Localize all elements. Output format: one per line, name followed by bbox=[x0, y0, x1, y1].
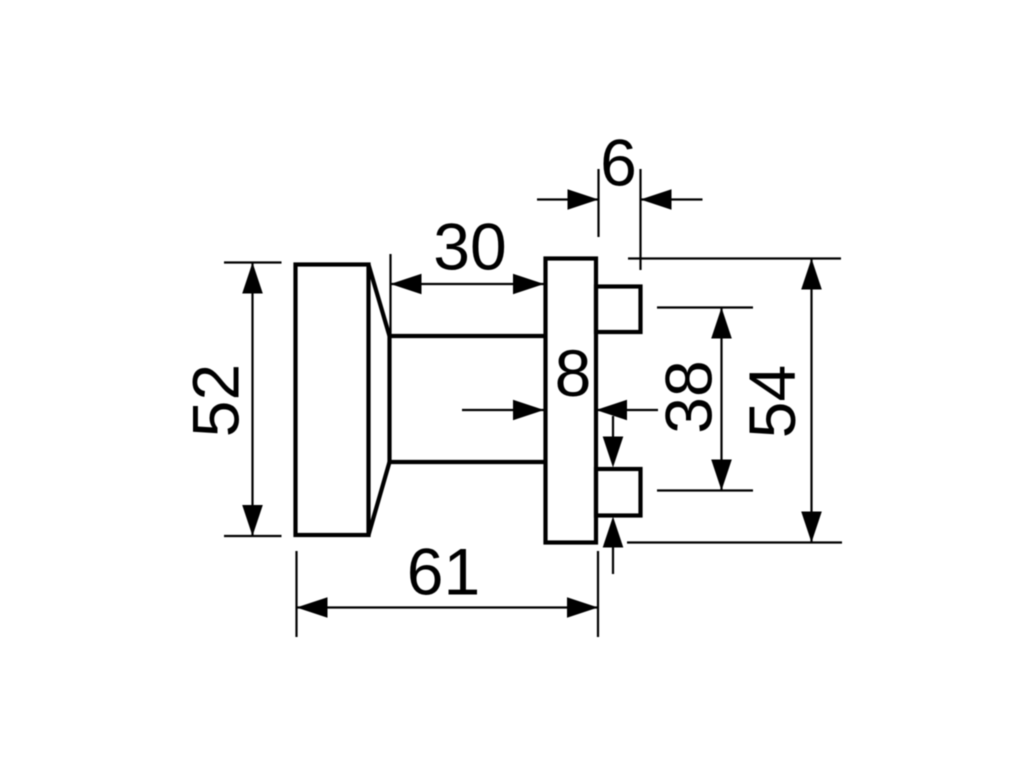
stem bottom edge bbox=[390, 460, 546, 464]
dim 54 bottom extension line bbox=[627, 541, 842, 543]
taper bottom edge bbox=[369, 462, 390, 535]
dim 52 line bbox=[251, 263, 253, 537]
dim 6 left arrow bbox=[568, 189, 599, 210]
svg-text:61: 61 bbox=[407, 535, 480, 609]
dim 61 right extension line bbox=[597, 551, 599, 637]
svg-text:38: 38 bbox=[652, 360, 726, 433]
dim 30 line bbox=[391, 283, 545, 285]
pin height dim up arrow bbox=[603, 517, 624, 548]
dim 6 right leader line bbox=[641, 198, 703, 200]
svg-text:30: 30 bbox=[433, 210, 506, 284]
dim 30 extension line bbox=[389, 254, 391, 335]
dim 61 right arrow bbox=[567, 597, 598, 618]
dim 54 top arrow bbox=[801, 259, 822, 290]
dim 38 bottom extension line bbox=[657, 489, 753, 491]
dim 8 right arrow bbox=[596, 400, 627, 421]
dim 54 line bbox=[810, 259, 812, 543]
taper top edge bbox=[369, 265, 390, 337]
dim 6 right arrow bbox=[641, 189, 672, 210]
dim 8 left leader line bbox=[462, 409, 544, 411]
dim 6 right extension line bbox=[639, 169, 641, 270]
dim 30 right arrow bbox=[513, 274, 544, 295]
dim 54 bottom arrow bbox=[801, 512, 822, 543]
dim 38 line bbox=[720, 308, 722, 491]
dim 30 left arrow bbox=[391, 274, 422, 295]
pin height dim lower leader line bbox=[612, 546, 614, 574]
dim 61 line bbox=[297, 606, 599, 608]
dim 38 top extension line bbox=[657, 306, 753, 308]
rosette plate outline bbox=[546, 259, 597, 543]
dim 54 top extension line bbox=[628, 257, 841, 259]
dim 52 top arrow bbox=[242, 263, 263, 294]
svg-text:8: 8 bbox=[555, 336, 592, 410]
knob face plate outline bbox=[296, 265, 369, 536]
dim 52 bottom extension line bbox=[224, 535, 282, 537]
svg-text:6: 6 bbox=[600, 126, 637, 200]
dim 61 left extension line bbox=[295, 551, 297, 637]
top square pin bbox=[596, 287, 641, 333]
dim 52 bottom arrow bbox=[242, 505, 263, 536]
dim 8 right leader line bbox=[596, 409, 658, 411]
pin height dim upper leader line bbox=[612, 416, 614, 440]
dim 8 left arrow bbox=[513, 400, 544, 421]
dim 38 bottom arrow bbox=[711, 460, 732, 491]
dim 61 left arrow bbox=[297, 597, 328, 618]
taper junction vertical edge bbox=[387, 334, 391, 464]
pin height dim down arrow bbox=[603, 437, 624, 468]
bottom square pin bbox=[596, 469, 641, 516]
dim 52 top extension line bbox=[224, 261, 282, 263]
svg-text:54: 54 bbox=[735, 365, 809, 438]
stem top edge bbox=[390, 334, 546, 338]
dim 38 top arrow bbox=[711, 308, 732, 339]
dim 6 left leader line bbox=[537, 198, 599, 200]
dim 6 left extension line bbox=[597, 169, 599, 237]
svg-text:52: 52 bbox=[179, 364, 253, 437]
